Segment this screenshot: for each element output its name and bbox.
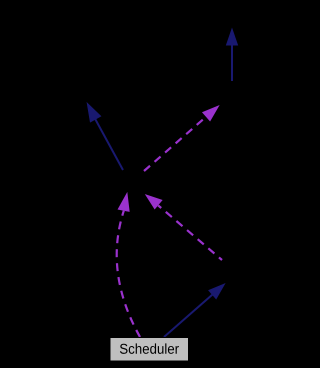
node: upper-right class (invisible black box) [196, 81, 281, 106]
node: middle class (invisible black box) [96, 170, 174, 193]
wire: inheritance arrow middle-to-upper-left (solid blue) [87, 103, 123, 170]
wire: usage arrow lower-right-to-middle (dashed purple) [146, 195, 222, 260]
node: top class (invisible black box) [177, 4, 289, 29]
node Scheduler (gray box, current class) [110, 338, 189, 362]
node: upper-left class (invisible black box) [30, 80, 140, 105]
wire: inheritance arrow upper-right-to-top (solid blue, vertical) [227, 29, 238, 81]
wire: usage arrow middle-to-upper-right (dashed purple) [144, 106, 219, 171]
wire: inheritance arrow Scheduler-to-lower-right (solid blue) [164, 284, 225, 337]
node: lower-right class (invisible black box) [222, 260, 297, 285]
wire: usage arrow Scheduler-to-middle (curved dashed purple) [117, 194, 140, 338]
